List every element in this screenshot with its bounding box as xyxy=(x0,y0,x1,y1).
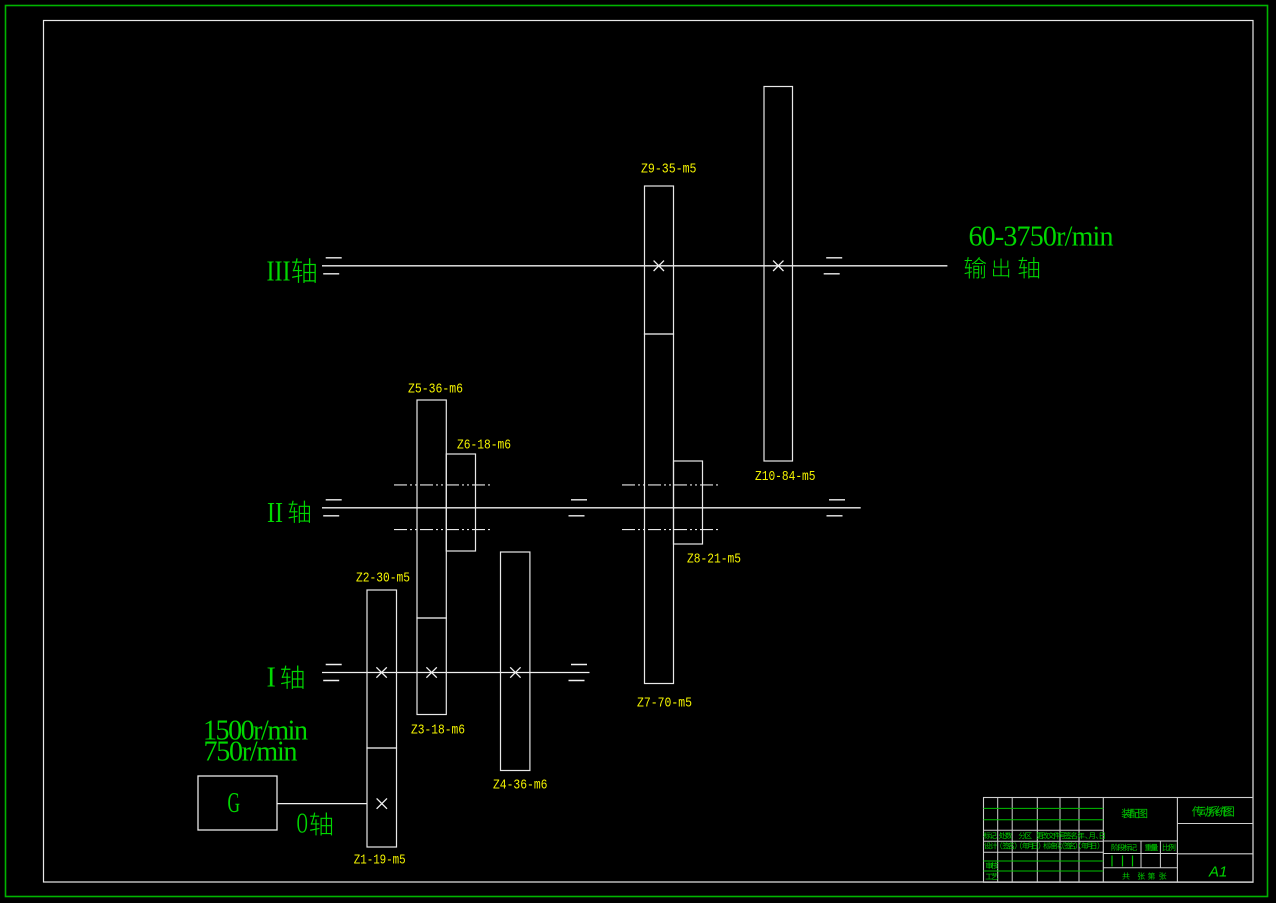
bearing shaft I right xyxy=(569,665,588,681)
title block outer border xyxy=(984,798,1254,883)
shaft O line (motor G to gear Z1) xyxy=(277,803,367,805)
svg-text:Z2-30-m5: Z2-30-m5 xyxy=(356,571,410,587)
fixed-joint cross on shaft O at Z1 xyxy=(377,798,387,808)
cell label 重量 xyxy=(1145,844,1158,851)
row label 标记 处数 分区 更改文件号签名 年、月、日 xyxy=(983,832,1104,839)
title block vertical grid lines (left revision grid) xyxy=(998,798,1079,883)
svg-text:O: O xyxy=(297,809,308,840)
spline centerline lower right (Z7/Z8) xyxy=(622,529,719,531)
bearing shaft III left xyxy=(323,258,342,274)
row label 工艺 xyxy=(986,873,998,880)
fixed-joint cross on shaft III at Z10 xyxy=(773,261,783,271)
bearing shaft I left xyxy=(323,665,342,681)
cell label 比例 xyxy=(1163,844,1175,851)
cell label 共张第张 xyxy=(1122,872,1166,879)
bearing shaft II middle xyxy=(569,500,588,516)
svg-text:Z5-36-m6: Z5-36-m6 xyxy=(408,382,463,398)
shaft II centerline xyxy=(322,507,861,509)
cell label 阶段标记 xyxy=(1112,844,1137,851)
gear Z9 (35 teeth, m5) xyxy=(645,186,674,334)
row label 设计（签名）（年月日）标准化（签名）（年月日） xyxy=(984,842,1099,849)
title block green rule lines left grid xyxy=(984,808,1104,871)
gear Z2 (30 teeth, m5) xyxy=(367,590,397,748)
gear Z10 (84 teeth, m5) xyxy=(764,87,793,462)
svg-text:Z8-21-m5: Z8-21-m5 xyxy=(687,552,741,568)
label shaft I: 轴 xyxy=(281,666,304,689)
shaft III centerline xyxy=(322,265,947,267)
fixed-joint cross on shaft I at Z4 xyxy=(510,667,520,677)
svg-text:G: G xyxy=(228,788,241,819)
bearing shaft II left xyxy=(323,500,342,516)
spline centerline upper left (Z5/Z6) xyxy=(394,484,491,486)
fixed-joint cross on shaft I at Z2 xyxy=(376,667,386,677)
gear Z1 (19 teeth, m5) xyxy=(367,748,397,847)
label shaft II: 轴 xyxy=(289,501,310,523)
gear Z5 (36 teeth, m6) xyxy=(417,400,446,618)
title 装配图 xyxy=(1122,809,1147,819)
svg-text:750r/min: 750r/min xyxy=(204,736,298,767)
title block horizontal white lines left grid xyxy=(984,830,1104,852)
svg-text:Z3-18-m6: Z3-18-m6 xyxy=(411,723,465,739)
fixed-joint cross on shaft I at Z3 xyxy=(426,667,436,677)
title block green tick marks under 阶段标记 xyxy=(1112,856,1133,867)
svg-text:Z9-35-m5: Z9-35-m5 xyxy=(641,161,697,177)
svg-text:Z4-36-m6: Z4-36-m6 xyxy=(493,778,548,794)
svg-text:Z10-84-m5: Z10-84-m5 xyxy=(755,469,816,485)
output shaft label 输出轴 xyxy=(965,257,1040,278)
label shaft III: 轴 xyxy=(292,258,316,283)
label shaft O: 轴 xyxy=(310,813,332,836)
svg-text:Z7-70-m5: Z7-70-m5 xyxy=(637,696,692,712)
svg-text:Z1-19-m5: Z1-19-m5 xyxy=(354,853,406,869)
drawing name 传动系统图 xyxy=(1192,806,1234,817)
title block left/middle/right column separators xyxy=(1103,798,1177,883)
spline centerline upper right (Z7/Z8) xyxy=(622,484,719,486)
svg-text:A1: A1 xyxy=(1208,863,1227,880)
title block middle column cell dividers (重量/比例) xyxy=(1141,841,1160,868)
gear Z3 (18 teeth, m6) xyxy=(417,618,446,715)
title block middle column horizontals xyxy=(1103,841,1177,868)
gear Z6 (18 teeth, m6) xyxy=(446,454,475,551)
motor box G xyxy=(198,776,277,830)
svg-text:Z6-18-m6: Z6-18-m6 xyxy=(457,437,511,453)
shaft I centerline xyxy=(322,672,590,674)
bearing shaft III right xyxy=(824,258,843,274)
title block right column horizontals xyxy=(1177,824,1253,854)
spline centerline lower left (Z5/Z6) xyxy=(394,529,491,531)
svg-text:I: I xyxy=(267,663,276,694)
row label 审核 xyxy=(986,862,998,869)
svg-text:II: II xyxy=(267,498,283,529)
gear Z7 (70 teeth, m5) xyxy=(645,334,674,684)
bearing shaft II right xyxy=(827,500,846,516)
gear Z8 (21 teeth, m5) xyxy=(674,461,703,544)
gear Z4 (36 teeth, m6) xyxy=(501,552,530,771)
fixed-joint cross on shaft III at Z9 xyxy=(654,261,664,271)
svg-text:60-3750r/min: 60-3750r/min xyxy=(969,222,1114,253)
svg-text:III: III xyxy=(267,256,291,287)
